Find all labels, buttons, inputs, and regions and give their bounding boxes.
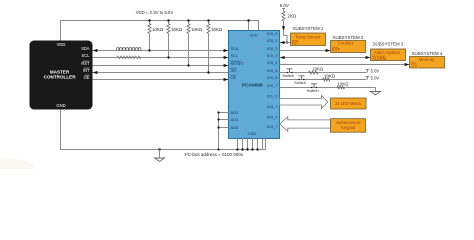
junction VDD rail / R2 [167, 19, 169, 21]
svg-text:IO0_6: IO0_6 [267, 75, 279, 80]
resistor 10K pull-up 2 [168, 21, 170, 24]
junction VDD rail / R3 [187, 19, 189, 21]
resistor 10K pull-up 1 [149, 21, 151, 24]
svg-text:VDD: VDD [249, 33, 258, 38]
svg-text:IO0_5: IO0_5 [267, 68, 279, 73]
wire RST bus [93, 65, 229, 67]
svg-text:I²C-bus address = 0100 000x: I²C-bus address = 0100 000x [185, 152, 244, 157]
svg-text:OE: OE [231, 75, 237, 80]
arrow into master on INT [93, 71, 98, 74]
svg-text:10KΩ: 10KΩ [171, 27, 183, 32]
resistor 10K row 1 [309, 71, 319, 74]
junction GND pin 1 [236, 148, 238, 150]
svg-text:IO1_0: IO1_0 [267, 94, 279, 99]
svg-text:10KΩ: 10KΩ [324, 73, 336, 78]
svg-text:VDD: VDD [57, 42, 66, 47]
junction AD chain / GND rail [217, 148, 219, 150]
svg-text:OE: OE [84, 75, 90, 80]
subsystem 1 Temp Sensor [291, 33, 326, 46]
wire switch row 3 [280, 87, 376, 89]
svg-text:IO0_2: IO0_2 [267, 46, 279, 51]
wire 2K to IO0_0 with down arrow [283, 21, 285, 36]
arrow into Counter EXT [326, 49, 331, 52]
junction GND pin 3 [246, 148, 248, 150]
arrow into PCA9698 on SCL [224, 56, 229, 59]
wire GND pin 3 [247, 139, 249, 150]
svg-text:IO0_7: IO0_7 [267, 83, 279, 88]
svg-text:Memory: Memory [419, 57, 436, 62]
wavy-line symbol on SCL [117, 56, 141, 59]
junction GND pin 2 [241, 148, 243, 150]
svg-text:2KΩ: 2KΩ [288, 14, 297, 19]
inductor/long-line symbol on SDA [117, 48, 141, 51]
arrow into Memory CS [405, 63, 410, 66]
wire row 3 to ground [375, 88, 377, 92]
I/O expander PCA9698 [229, 31, 280, 139]
ground symbol bottom [158, 148, 160, 150]
svg-text:INT: INT [83, 68, 90, 73]
svg-text:10KΩ: 10KΩ [312, 66, 324, 71]
svg-text:ALARM: ALARM [372, 56, 387, 61]
resistor 2K [282, 11, 285, 21]
wire IO0_1 / Counter EXT [280, 50, 331, 52]
faint corner smudge [0, 159, 34, 175]
svg-text:AD0: AD0 [231, 125, 240, 130]
svg-text:Alarm System: Alarm System [374, 50, 401, 55]
arrow into PCA9698 IO0_2 [280, 56, 285, 59]
wire GND pin 6 [262, 139, 264, 150]
subsystem 24 LED Matrix [331, 98, 367, 109]
subsystem 4 Memory [410, 57, 445, 69]
wire SCL bus [93, 57, 229, 59]
wire IO0_3 / Memory CS [280, 64, 410, 66]
wire VDD stub [248, 21, 250, 31]
svg-text:SUBSYSTEM 3: SUBSYSTEM 3 [373, 42, 404, 47]
bus arrow IO1_0..IO3_7 to 24 LED Matrix [280, 96, 328, 109]
svg-text:CS: CS [411, 63, 417, 68]
wire AD2 [219, 113, 229, 150]
junction RST / R3 [187, 64, 189, 66]
svg-text:5.0V: 5.0V [371, 75, 380, 80]
svg-text:Switch: Switch [282, 73, 294, 78]
arrow into PCA9698 IO0_0 [280, 41, 285, 44]
svg-text:SDA: SDA [231, 46, 240, 51]
arrow into PCA9698 on SDA [224, 49, 229, 52]
svg-text:10KΩ: 10KΩ [191, 27, 203, 32]
svg-text:SUBSYSTEM 4: SUBSYSTEM 4 [412, 51, 443, 56]
svg-text:SDA: SDA [81, 46, 90, 51]
bus arrow Keypad to IO4_0..IO4_7 [280, 117, 331, 131]
svg-text:IO0_3: IO0_3 [267, 53, 279, 58]
net VDD rail [61, 21, 259, 41]
subsystem Alphanumeric Keypad [331, 119, 366, 133]
svg-text:EXT: EXT [332, 47, 340, 52]
svg-text:IO0_0: IO0_0 [267, 31, 279, 36]
junction VDD stub / rail [247, 19, 249, 21]
svg-text:Switch: Switch [294, 80, 306, 85]
ground symbol top right [371, 92, 381, 96]
svg-text:Temp Sensor: Temp Sensor [295, 34, 321, 39]
junction VDD rail / R4 [207, 19, 209, 21]
wire GND pin 4 [252, 139, 254, 150]
resistor 10K row 2 [323, 78, 331, 81]
junction SDA / R1 [148, 49, 150, 51]
resistor 10K pull-up 4 [208, 21, 210, 24]
arrow into Alarm ALARM [366, 56, 371, 59]
wire OE bus [93, 79, 229, 81]
svg-text:Switch: Switch [307, 88, 319, 93]
svg-text:GND: GND [56, 103, 65, 108]
arrow into master on SDA [93, 49, 98, 52]
switch 3 [311, 84, 317, 87]
svg-text:SCL: SCL [82, 53, 91, 58]
svg-text:SUBSYSTEM 1: SUBSYSTEM 1 [293, 26, 324, 31]
master controller [30, 41, 93, 110]
svg-text:AD1: AD1 [231, 117, 240, 122]
svg-text:10KΩ: 10KΩ [211, 27, 223, 32]
switch 2 [298, 76, 304, 79]
svg-text:5.0V: 5.0V [371, 68, 380, 73]
wire GND pin 5 [257, 139, 259, 150]
svg-text:IO4_7: IO4_7 [267, 124, 279, 129]
svg-text:GND: GND [248, 131, 257, 136]
wire switch row 1 [280, 72, 367, 74]
junction SCL / R2 [167, 56, 169, 58]
svg-text:VDD = 2.3V to 5.5V: VDD = 2.3V to 5.5V [136, 10, 174, 15]
svg-text:SCL: SCL [231, 53, 240, 58]
svg-text:24 LED Matrix: 24 LED Matrix [335, 101, 361, 106]
subsystem 2 Counter [331, 41, 366, 53]
junction VDD rail / R1 [148, 19, 150, 21]
svg-text:IO0_4: IO0_4 [267, 60, 279, 65]
svg-text:Counter: Counter [338, 41, 354, 46]
svg-text:Keypad: Keypad [341, 125, 356, 130]
svg-text:10KΩ: 10KΩ [152, 27, 164, 32]
svg-text:INT: INT [292, 40, 299, 45]
svg-text:IO0_1: IO0_1 [267, 38, 279, 43]
subsystem 3 Alarm System [371, 49, 406, 61]
svg-text:AD2: AD2 [231, 110, 240, 115]
svg-text:IO3_7: IO3_7 [267, 104, 279, 109]
svg-text:SUBSYSTEM 2: SUBSYSTEM 2 [333, 35, 364, 40]
resistor 10K pull-up 3 [188, 21, 190, 24]
svg-text:CONTROLLER: CONTROLLER [44, 75, 77, 80]
switch 1 [286, 69, 292, 72]
svg-text:5.0V: 5.0V [280, 3, 289, 8]
junction GND pin 5 [256, 148, 258, 150]
wire IO0_0 / Temp Sensor INT [280, 42, 291, 44]
wire switch row 2 [280, 79, 367, 81]
wire INT bus [93, 72, 229, 74]
wire GND rail [61, 110, 266, 150]
svg-text:RESET: RESET [231, 61, 245, 66]
wire GND pin 2 [242, 139, 244, 150]
wire SDA bus [93, 50, 229, 52]
wire IO0_2 / Alarm ALARM [280, 57, 371, 59]
svg-text:IO4_0: IO4_0 [267, 115, 279, 120]
svg-text:10KΩ: 10KΩ [337, 81, 349, 86]
svg-text:PCA9698: PCA9698 [242, 82, 263, 88]
arrow into PCA9698 on RST [224, 64, 229, 67]
svg-text:RST: RST [81, 61, 90, 66]
wire AD1 [219, 119, 229, 121]
junction GND pin 4 [251, 148, 253, 150]
arrow into PCA9698 on OE [224, 78, 229, 81]
node 5.0V row 2 [366, 76, 370, 79]
junction INT / R4 [207, 71, 209, 73]
resistor 10K row 3 [337, 86, 345, 89]
svg-text:INT: INT [231, 68, 238, 73]
wire GND pin 1 [237, 139, 239, 150]
node 5.0V row 1 [366, 69, 370, 72]
wire AD0 [219, 127, 229, 129]
